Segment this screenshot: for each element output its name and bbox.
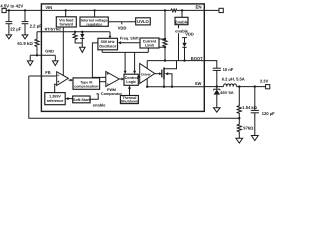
capacitor C1 22uF (6, 10, 22, 39)
resistor EN pullup (171, 9, 177, 12)
op-amp PWM comparator (106, 72, 119, 87)
node EN (181, 9, 183, 11)
inductor L1 6.2uH (222, 77, 245, 87)
svg-text:120 µF: 120 µF (262, 111, 275, 116)
svg-text:reference: reference (47, 99, 64, 103)
wire driver boot rail (146, 61, 148, 69)
wire FB (29, 75, 57, 77)
svg-text:Soft-Start: Soft-Start (73, 98, 91, 102)
label plus input PWM (107, 73, 109, 75)
wire error amp to compensation (68, 79, 70, 81)
wire current limit riser (147, 48, 149, 52)
wire VIN rail right of resistor (177, 9, 220, 11)
transistor Q1 power NMOS (162, 61, 177, 87)
output terminal (266, 85, 270, 89)
node output cap tap (254, 85, 256, 87)
svg-text:compensation: compensation (74, 85, 98, 89)
wire GND left drop (29, 55, 31, 61)
diode bootstrap (182, 38, 186, 61)
svg-text:forward: forward (60, 23, 74, 27)
capacitor C3 120uF (251, 87, 275, 136)
wire reference to plus input (55, 84, 57, 92)
capacitor boot 10nF (213, 67, 234, 87)
label minus input (58, 74, 60, 76)
wire VDD stub to boot diode (182, 37, 187, 39)
svg-text:BOOT: BOOT (191, 56, 203, 61)
node foldback diode (81, 31, 83, 33)
svg-text:6.2 µH, 5.5A: 6.2 µH, 5.5A (222, 77, 245, 82)
arrowhead into compensation (70, 79, 73, 82)
node FB divider (238, 117, 240, 119)
ground internal GND pin (53, 61, 59, 66)
label plus input (58, 81, 60, 83)
block UVLO (136, 18, 151, 25)
svg-text:Driver: Driver (141, 73, 151, 77)
svg-text:GND: GND (45, 49, 54, 54)
node C2 tap (24, 9, 26, 11)
wire FB trace (29, 76, 240, 118)
node GND junction (36, 54, 38, 56)
wire oscillator output drop (101, 50, 103, 53)
node divider tap (238, 85, 240, 87)
node VFF tap (65, 9, 67, 11)
wire enable signal upper (178, 25, 180, 29)
wire soft-start to reference (67, 98, 73, 100)
pin EN terminal (219, 8, 223, 12)
wire VIN to sense resistor (164, 10, 166, 39)
resistor foldback (73, 32, 82, 43)
wire clock drop to control logic (124, 52, 126, 71)
input terminal (2, 8, 6, 12)
svg-text:VDD: VDD (118, 25, 127, 30)
diode foldback (80, 32, 84, 47)
svg-text:61.9 kΩ: 61.9 kΩ (17, 41, 33, 46)
node sense bottom (164, 46, 166, 48)
ground foldback (80, 47, 86, 52)
node regulator tap (93, 9, 95, 11)
node source rail (163, 86, 165, 88)
svg-text:10 nF: 10 nF (223, 67, 234, 72)
svg-text:2.2 µF: 2.2 µF (30, 24, 43, 29)
wire compensation to PWM comparator (100, 81, 106, 83)
wire GND right drop (54, 55, 56, 61)
capacitor C2 2.2uF (22, 10, 43, 39)
arrowhead thermal into control logic (128, 85, 131, 88)
svg-text:enable: enable (93, 102, 106, 107)
svg-text:Logic: Logic (126, 80, 136, 84)
wire enable input (181, 10, 183, 17)
wire VIN rail (6, 9, 171, 11)
wire regulator to UVLO (108, 21, 135, 23)
op-amp error amplifier (57, 72, 69, 86)
wire boot rail (147, 60, 204, 62)
wire sense to drain rail (164, 47, 166, 60)
wire SW external (204, 86, 223, 88)
arrowhead current limit into control logic (133, 71, 136, 74)
op-amp driver (140, 63, 155, 83)
wire control logic to driver (137, 76, 139, 78)
node boot diode (183, 59, 185, 61)
svg-text:45V 5A: 45V 5A (220, 90, 233, 95)
arrowhead into driver (138, 75, 140, 78)
svg-text:SW: SW (195, 81, 202, 86)
ground external (27, 61, 33, 66)
wire sense plus (159, 38, 165, 40)
svg-text:Shutdown: Shutdown (121, 100, 138, 104)
wire PWM to control logic (119, 78, 121, 80)
block internal voltage regulator (80, 17, 108, 26)
node sense top (164, 38, 166, 40)
svg-text:VDD: VDD (185, 32, 194, 37)
block Type III compensation (73, 78, 100, 89)
wire RT/SYNC (37, 31, 110, 33)
wire enable signal lower (178, 33, 180, 60)
wire thermal shutdown to control logic (129, 88, 131, 95)
label PWM Comparator (101, 88, 122, 96)
arrowhead clock into control logic (124, 71, 127, 74)
svg-text:FB: FB (45, 70, 51, 75)
resistor current sense (163, 39, 167, 47)
svg-text:976Ω: 976Ω (243, 126, 254, 131)
block Soft-Start (73, 96, 91, 103)
wire regulator drop (94, 10, 96, 17)
svg-text:Oscillator: Oscillator (99, 44, 117, 48)
svg-text:Limit: Limit (145, 43, 155, 47)
block Control Logic (124, 74, 138, 85)
block reference 1.265V (45, 93, 65, 105)
block Current Limit (140, 38, 159, 48)
svg-text:Enable: Enable (175, 19, 189, 24)
wire sense minus (159, 46, 165, 48)
block Thermal Shutdown (120, 96, 138, 104)
svg-text:3.3V: 3.3V (260, 78, 269, 83)
svg-text:RT/SYNC: RT/SYNC (45, 28, 62, 32)
resistor R2 1.54k (237, 87, 257, 119)
ground divider (236, 138, 243, 143)
arrowhead into reference (65, 97, 68, 100)
node sense tap (164, 9, 166, 11)
IC boundary U1 (41, 4, 204, 112)
node SW diode (216, 85, 218, 87)
block Enable (175, 17, 189, 24)
svg-text:Freq. Shift: Freq. Shift (120, 36, 140, 40)
wire oscillator ramp to PWM comparator (92, 43, 106, 78)
arrowhead into oscillator (109, 36, 112, 38)
label minus input PWM (107, 83, 109, 85)
wire Vin feed forward ramp (62, 27, 64, 75)
wire RT/SYNC into oscillator (109, 32, 111, 36)
svg-text:VIN: VIN (45, 5, 52, 10)
wire soft-start enable hook (90, 94, 98, 99)
svg-text:regulator: regulator (86, 22, 102, 26)
diode catch D1 45V 5A (214, 87, 234, 113)
wire SW rail (147, 86, 204, 88)
block Vin feed forward (56, 17, 76, 27)
wire BOOT pin (204, 61, 217, 69)
node C1 tap (8, 9, 10, 11)
wire frequency shift (121, 42, 141, 44)
svg-text:Comparator: Comparator (101, 92, 122, 96)
wire VFF drop (65, 10, 67, 16)
arrowhead freq shift into oscillator (118, 41, 121, 44)
node foldback resistor (74, 31, 76, 33)
block 500 kHz Oscillator (98, 38, 118, 50)
resistor R1 61.9k (17, 32, 39, 56)
ground output cap (251, 136, 258, 141)
arrowhead into control logic (121, 78, 124, 81)
node source SW (171, 86, 173, 88)
svg-text:22 µF: 22 µF (10, 27, 21, 32)
node VDD stub (121, 22, 123, 25)
wire output (237, 86, 266, 88)
wire logic bus (102, 51, 148, 53)
arrowhead gate (159, 72, 161, 75)
wire GND net (30, 54, 55, 56)
wire driver sw rail (146, 79, 148, 87)
svg-text:UVLO: UVLO (137, 19, 149, 24)
svg-text:1.54 kΩ: 1.54 kΩ (242, 105, 257, 110)
wire gate (155, 73, 160, 75)
svg-text:EN: EN (196, 4, 202, 9)
node driver SW (146, 86, 148, 88)
resistor R3 976 (237, 118, 254, 138)
wire current limit drop to control logic (134, 52, 136, 71)
svg-text:4.5V to 42V: 4.5V to 42V (0, 4, 23, 9)
node sense rail (164, 59, 166, 61)
